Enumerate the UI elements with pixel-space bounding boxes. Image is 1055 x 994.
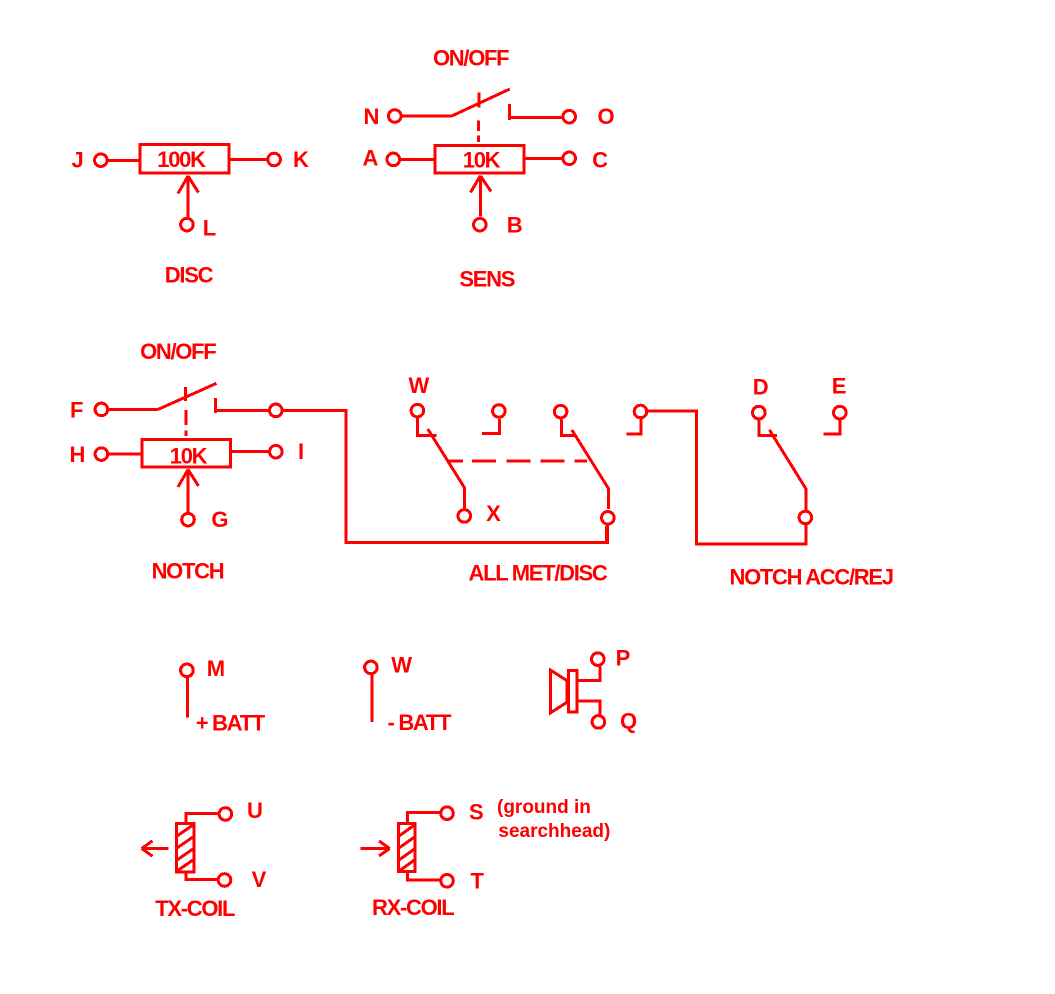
svg-text:+ BATT: + BATT bbox=[196, 711, 266, 736]
gang link dashes (switch to pot) bbox=[185, 410, 188, 425]
svg-text:I: I bbox=[298, 439, 303, 464]
throw contact 2 bbox=[493, 405, 506, 418]
wiper arrow of DISC pot bbox=[187, 177, 190, 217]
right contact bbox=[214, 398, 217, 413]
wire pot to K bbox=[230, 158, 266, 161]
terminal V bbox=[218, 874, 231, 887]
svg-text:D: D bbox=[753, 375, 768, 400]
svg-text:100K: 100K bbox=[157, 147, 206, 172]
TX coil hatching bbox=[177, 825, 193, 836]
terminal F bbox=[95, 403, 108, 416]
terminal N bbox=[389, 110, 402, 123]
terminal D bbox=[753, 406, 766, 419]
RX top lead bbox=[407, 812, 441, 823]
throw contact 4 bbox=[634, 405, 647, 418]
potentiometer body 10K (NOTCH) bbox=[142, 440, 231, 468]
junction terminal (switch output) bbox=[270, 404, 283, 417]
speaker top lead bbox=[579, 667, 601, 681]
terminal P bbox=[592, 653, 605, 666]
contact2 hook bbox=[482, 419, 499, 433]
wire pot to I bbox=[232, 450, 268, 453]
svg-text:M: M bbox=[207, 656, 224, 681]
wire contact to O bbox=[509, 116, 561, 119]
terminal L bbox=[181, 218, 194, 231]
svg-text:X: X bbox=[486, 501, 501, 526]
terminal W (pole1 top) bbox=[411, 404, 424, 417]
blade tick bbox=[184, 387, 187, 401]
svg-text:S: S bbox=[469, 800, 483, 825]
potentiometer body 10K (SENS) bbox=[435, 146, 524, 174]
svg-text:T: T bbox=[471, 869, 485, 894]
TX bottom lead bbox=[186, 872, 217, 880]
svg-text:L: L bbox=[203, 216, 216, 241]
svg-text:TX-COIL: TX-COIL bbox=[155, 896, 235, 921]
bottom terminal bbox=[799, 511, 812, 524]
terminal E bbox=[834, 406, 847, 419]
wiper arrow of SENS pot bbox=[479, 177, 482, 217]
svg-text:NOTCH: NOTCH bbox=[152, 559, 224, 584]
terminal A bbox=[387, 153, 400, 166]
wire contact to junction circle bbox=[215, 409, 268, 412]
gang link dashes (DPDT mechanical link) bbox=[448, 459, 464, 462]
pole2 hook bbox=[562, 419, 575, 435]
svg-text:- BATT: - BATT bbox=[388, 710, 453, 735]
terminal X (pole1 bottom) bbox=[458, 510, 471, 523]
svg-text:F: F bbox=[70, 398, 83, 423]
terminal Q bbox=[592, 716, 605, 729]
terminal U bbox=[219, 808, 232, 821]
svg-text:SENS: SENS bbox=[459, 266, 514, 291]
terminal S bbox=[441, 807, 454, 820]
terminal O bbox=[563, 110, 576, 123]
terminal C bbox=[563, 152, 576, 165]
wire contact4 to NOTCH ACC/REJ bottom bbox=[648, 411, 806, 544]
svg-text:10K: 10K bbox=[463, 148, 501, 173]
wire NOTCH switch to ALL MET/DISC bottom bbox=[284, 410, 608, 542]
svg-text:ON/OFF: ON/OFF bbox=[140, 339, 216, 364]
terminal I bbox=[270, 445, 283, 458]
svg-text:C: C bbox=[592, 147, 608, 172]
svg-text:K: K bbox=[293, 147, 309, 172]
svg-text:ALL MET/DISC: ALL MET/DISC bbox=[469, 560, 608, 585]
svg-text:B: B bbox=[507, 213, 522, 238]
blade tick bbox=[478, 93, 481, 108]
contact4 hook bbox=[626, 419, 641, 434]
terminal M bbox=[181, 664, 194, 677]
terminal H bbox=[95, 448, 108, 461]
svg-text:ON/OFF: ON/OFF bbox=[433, 46, 509, 71]
stub below pole2 bottom terminal bbox=[605, 526, 608, 543]
wire F to switch bbox=[109, 408, 158, 411]
svg-text:O: O bbox=[598, 104, 615, 129]
svg-text:W: W bbox=[391, 653, 412, 678]
svg-text:V: V bbox=[252, 867, 267, 892]
RX coil hatching bbox=[399, 825, 415, 836]
TX top lead bbox=[186, 813, 219, 823]
D hook bbox=[759, 420, 777, 436]
svg-text:E: E bbox=[832, 374, 846, 399]
terminal J bbox=[95, 154, 108, 167]
svg-text:J: J bbox=[72, 148, 83, 173]
pole2 bottom terminal bbox=[602, 512, 615, 525]
RX coil body bbox=[399, 824, 416, 872]
svg-text:P: P bbox=[616, 645, 630, 670]
svg-text:NOTCH ACC/REJ: NOTCH ACC/REJ bbox=[730, 564, 893, 589]
svg-text:A: A bbox=[363, 146, 379, 171]
svg-text:10K: 10K bbox=[170, 443, 208, 468]
wire pot to C bbox=[526, 157, 562, 160]
terminal B bbox=[474, 218, 487, 231]
svg-text:U: U bbox=[247, 798, 262, 823]
svg-text:H: H bbox=[70, 442, 85, 467]
terminal G bbox=[182, 513, 195, 526]
pole2 top terminal bbox=[554, 405, 567, 418]
pole2 blade bbox=[572, 430, 609, 509]
wire N to switch bbox=[403, 115, 452, 118]
switch blade (SENS on/off) bbox=[452, 89, 510, 116]
wire A to pot bbox=[401, 158, 435, 161]
terminal K bbox=[268, 153, 281, 166]
wire J to pot bbox=[109, 159, 140, 162]
right contact bbox=[508, 104, 511, 120]
wire H to pot bbox=[109, 453, 142, 456]
svg-text:RX-COIL: RX-COIL bbox=[372, 895, 454, 920]
speaker driver body bbox=[569, 671, 578, 712]
switch blade (NOTCH on/off) bbox=[158, 383, 216, 409]
pole1 blade bbox=[428, 429, 465, 508]
terminal T bbox=[441, 875, 454, 888]
RX field arrow (right) bbox=[360, 847, 389, 850]
speaker horn bbox=[551, 670, 567, 713]
D pole blade bbox=[769, 430, 805, 510]
pole1 hook bbox=[417, 418, 436, 435]
RX bottom lead bbox=[407, 872, 440, 880]
W lead wire bbox=[370, 675, 373, 722]
svg-text:searchhead): searchhead) bbox=[498, 821, 610, 842]
svg-text:W: W bbox=[409, 373, 430, 398]
wiper arrow of NOTCH pot bbox=[187, 470, 190, 512]
svg-text:Q: Q bbox=[620, 709, 637, 734]
TX coil body bbox=[177, 823, 194, 872]
svg-text:G: G bbox=[211, 507, 227, 532]
svg-text:(ground in: (ground in bbox=[497, 797, 591, 818]
E hook bbox=[824, 420, 841, 435]
M lead wire bbox=[186, 678, 189, 718]
svg-text:DISC: DISC bbox=[165, 263, 214, 288]
speaker bottom lead bbox=[579, 701, 601, 715]
potentiometer R body 100K bbox=[140, 145, 229, 173]
TX field arrow (left) bbox=[142, 847, 169, 850]
gang link dashes (switch to pot) bbox=[477, 120, 480, 131]
svg-text:N: N bbox=[364, 104, 379, 129]
terminal W (batt) bbox=[365, 661, 378, 674]
